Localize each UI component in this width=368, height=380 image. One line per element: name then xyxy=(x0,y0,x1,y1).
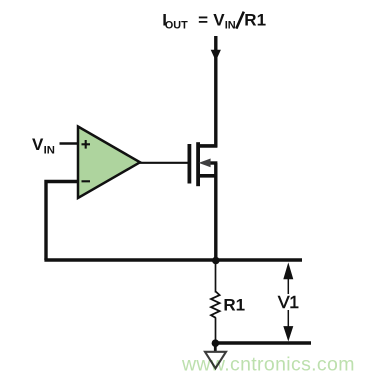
wire bottom line xyxy=(216,341,312,344)
label V1 xyxy=(277,294,299,310)
svg-text:V1: V1 xyxy=(278,292,299,312)
junction node B xyxy=(212,339,220,347)
resistor R1 xyxy=(211,292,220,318)
svg-text:IOUT=VINR1: IOUT=VINR1 xyxy=(162,10,266,31)
transistor M1 channel bar xyxy=(196,142,200,186)
wire feedback xyxy=(46,182,78,261)
wire source vertical xyxy=(214,163,217,260)
ground xyxy=(205,352,226,369)
svg-text:VIN: VIN xyxy=(32,135,55,157)
V1 up arrow xyxy=(283,262,293,279)
V1 down arrow xyxy=(283,326,293,341)
transistor M1 drain stub xyxy=(198,144,217,148)
svg-text:www.cntronics.com: www.cntronics.com xyxy=(181,353,355,375)
wire resistor to bottom node xyxy=(215,318,217,344)
wire gate lead xyxy=(138,162,188,164)
svg-text:R1: R1 xyxy=(223,295,245,314)
wire drain vertical xyxy=(214,36,217,147)
op-amp U1 body xyxy=(78,127,140,199)
transistor M1 bulk arrow xyxy=(199,159,211,168)
transistor M1 bulk stub xyxy=(206,161,217,164)
wire node to resistor xyxy=(215,260,217,293)
wire output node line xyxy=(44,258,302,261)
label slash xyxy=(236,12,244,29)
transistor M1 source stub xyxy=(198,174,217,178)
wire noninverting input lead xyxy=(60,142,79,144)
wire ground stub xyxy=(214,343,217,351)
op-amp U1 plus sign xyxy=(82,143,91,145)
junction node A xyxy=(212,257,220,265)
transistor M1 gate bar xyxy=(187,144,191,184)
V1 dimension line xyxy=(287,270,289,330)
current arrow IOUT xyxy=(211,50,221,61)
op-amp U1 minus sign xyxy=(82,180,91,182)
